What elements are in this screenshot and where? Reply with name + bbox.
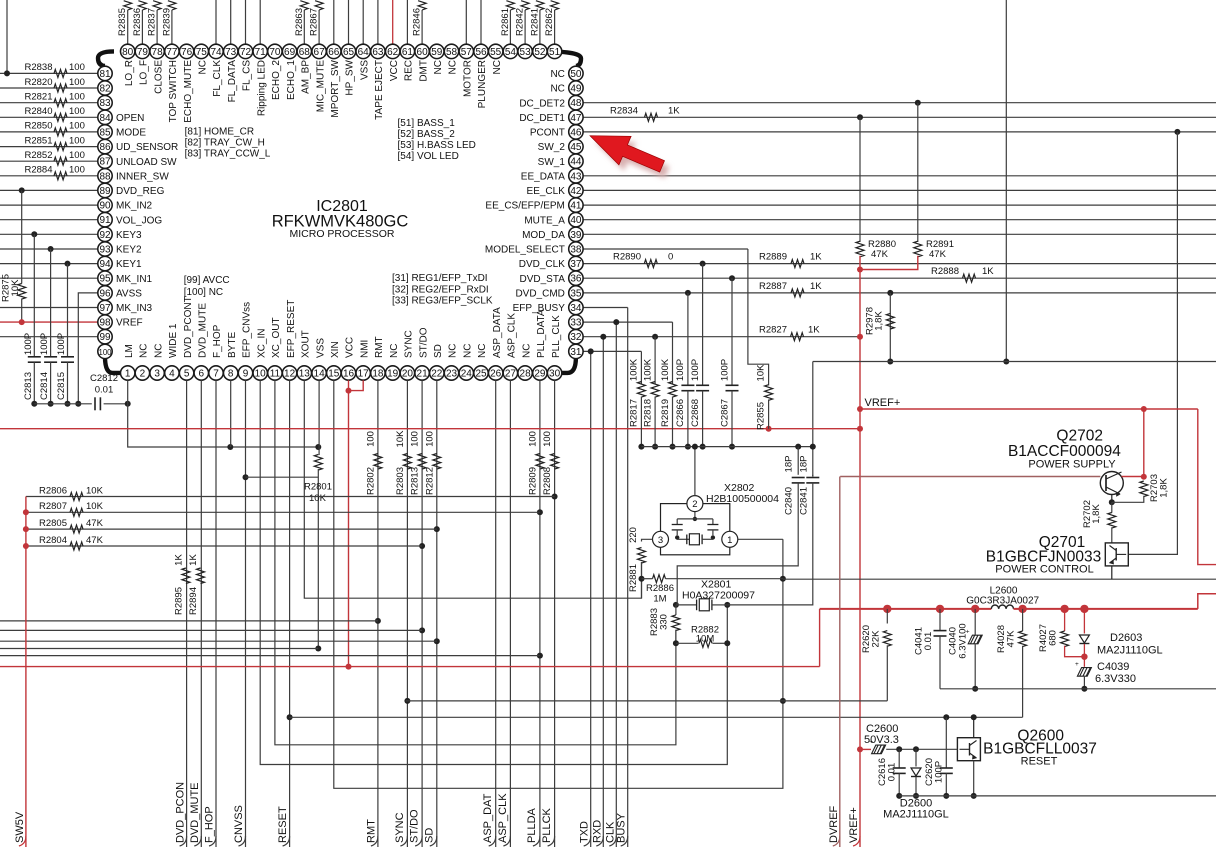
svg-text:ASP_CLK: ASP_CLK	[507, 313, 518, 358]
svg-text:18: 18	[372, 369, 384, 380]
svg-text:[52] BASS_2: [52] BASS_2	[398, 129, 456, 140]
svg-text:BYTE: BYTE	[227, 332, 238, 358]
svg-text:ASP_DAT: ASP_DAT	[482, 793, 494, 843]
svg-text:R2890: R2890	[613, 252, 641, 263]
svg-text:KEY1: KEY1	[116, 259, 142, 270]
svg-text:[99] AVCC: [99] AVCC	[184, 275, 230, 286]
svg-text:100: 100	[410, 431, 421, 447]
svg-text:78: 78	[152, 47, 164, 58]
svg-text:50V3.3: 50V3.3	[864, 734, 899, 746]
svg-text:MODE: MODE	[116, 128, 146, 139]
svg-text:100P: 100P	[39, 333, 50, 355]
svg-text:100P: 100P	[934, 761, 945, 783]
svg-text:1K: 1K	[808, 325, 820, 336]
svg-text:MA2J1110GL: MA2J1110GL	[1097, 645, 1163, 657]
svg-text:DVD_CMD: DVD_CMD	[515, 289, 564, 300]
svg-text:DMT: DMT	[418, 60, 429, 82]
svg-text:R2818: R2818	[642, 399, 653, 427]
svg-text:60: 60	[417, 47, 429, 58]
svg-text:24: 24	[461, 369, 473, 380]
svg-text:86: 86	[99, 142, 111, 153]
svg-text:SW5V: SW5V	[14, 811, 26, 843]
svg-text:72: 72	[240, 47, 252, 58]
svg-text:VREF+: VREF+	[848, 807, 860, 843]
svg-text:2: 2	[692, 499, 697, 510]
svg-text:TXD: TXD	[579, 821, 591, 843]
svg-text:100P: 100P	[690, 359, 701, 381]
svg-text:71: 71	[255, 47, 267, 58]
svg-text:[100] NC: [100] NC	[184, 287, 223, 298]
svg-text:35: 35	[570, 288, 582, 299]
svg-text:70: 70	[269, 47, 281, 58]
svg-text:DVD_PCON: DVD_PCON	[174, 782, 186, 843]
svg-text:13: 13	[299, 369, 311, 380]
svg-text:1K: 1K	[188, 554, 199, 566]
svg-text:76: 76	[181, 47, 193, 58]
svg-text:[81] HOME_CR: [81] HOME_CR	[185, 127, 254, 138]
svg-text:10K: 10K	[309, 493, 327, 504]
svg-text:51: 51	[549, 47, 561, 58]
svg-text:R2881: R2881	[628, 564, 639, 592]
svg-text:20: 20	[402, 369, 414, 380]
svg-text:XOUT: XOUT	[301, 330, 312, 358]
svg-text:92: 92	[99, 230, 111, 241]
svg-text:67: 67	[314, 47, 326, 58]
svg-text:R2851: R2851	[25, 135, 53, 146]
svg-text:POWER SUPPLY: POWER SUPPLY	[1028, 459, 1116, 471]
svg-text:C2866: C2866	[675, 399, 686, 427]
svg-text:R2884: R2884	[25, 165, 53, 176]
svg-text:DVD_MUTE: DVD_MUTE	[198, 303, 209, 358]
svg-text:DVD_REG: DVD_REG	[116, 186, 165, 197]
svg-text:94: 94	[99, 259, 111, 270]
svg-text:22: 22	[431, 369, 443, 380]
svg-text:10K: 10K	[86, 485, 104, 496]
svg-text:PLLDA: PLLDA	[526, 807, 538, 843]
svg-text:ECHO_MUTE: ECHO_MUTE	[183, 60, 194, 123]
svg-text:NC: NC	[448, 60, 459, 74]
svg-text:[51] BASS_1: [51] BASS_1	[398, 118, 456, 129]
svg-text:80: 80	[122, 47, 134, 58]
svg-text:32: 32	[570, 332, 582, 343]
svg-text:100P: 100P	[56, 333, 67, 355]
svg-text:NC: NC	[492, 60, 503, 74]
svg-text:30: 30	[549, 369, 561, 380]
svg-text:MA2J1110GL: MA2J1110GL	[883, 809, 949, 821]
svg-text:R2813: R2813	[410, 467, 421, 495]
svg-text:MUTE_A: MUTE_A	[524, 215, 565, 226]
svg-text:7: 7	[213, 369, 219, 380]
svg-text:R2889: R2889	[759, 252, 787, 263]
svg-text:R2808: R2808	[542, 467, 553, 495]
svg-text:0.01: 0.01	[95, 385, 114, 396]
svg-text:[32] REG2/EFP_RxDI: [32] REG2/EFP_RxDI	[392, 284, 489, 295]
svg-text:VSS: VSS	[359, 60, 370, 80]
svg-text:DVD_PCONT: DVD_PCONT	[183, 296, 194, 358]
svg-text:47K: 47K	[929, 249, 947, 260]
svg-text:R2888: R2888	[931, 266, 959, 277]
svg-text:R2807: R2807	[39, 501, 67, 512]
svg-text:MK_IN2: MK_IN2	[116, 201, 153, 212]
svg-text:100K: 100K	[642, 358, 653, 381]
svg-text:EE_CLK: EE_CLK	[527, 186, 566, 197]
svg-text:36: 36	[570, 274, 582, 285]
svg-text:75: 75	[196, 47, 208, 58]
svg-text:G0C3R3JA0027: G0C3R3JA0027	[966, 596, 1039, 607]
svg-text:NC: NC	[139, 344, 150, 358]
svg-text:R2805: R2805	[39, 518, 67, 529]
svg-text:1,8K: 1,8K	[1159, 478, 1170, 498]
svg-text:52: 52	[534, 47, 546, 58]
svg-text:ECHO_2: ECHO_2	[271, 60, 282, 100]
svg-text:C2840: C2840	[784, 487, 795, 515]
svg-text:EE_CS/EFP/EPM: EE_CS/EFP/EPM	[485, 201, 564, 212]
svg-text:44: 44	[570, 157, 582, 168]
svg-text:100P: 100P	[719, 359, 730, 381]
svg-text:100: 100	[69, 92, 85, 103]
svg-text:93: 93	[99, 245, 111, 256]
svg-text:AVSS: AVSS	[116, 289, 142, 300]
svg-text:79: 79	[137, 47, 149, 58]
svg-text:0.01: 0.01	[923, 632, 934, 651]
svg-text:DVD_STA: DVD_STA	[520, 274, 566, 285]
svg-text:LO_R: LO_R	[124, 60, 135, 86]
svg-text:330: 330	[659, 614, 670, 630]
svg-text:100: 100	[69, 150, 85, 161]
svg-text:RESET: RESET	[1021, 756, 1058, 768]
svg-text:1K: 1K	[810, 252, 822, 263]
svg-text:LM: LM	[124, 344, 135, 358]
svg-text:40: 40	[570, 215, 582, 226]
svg-text:65: 65	[343, 47, 355, 58]
svg-text:MIC_MUTE: MIC_MUTE	[315, 60, 326, 113]
svg-text:NC: NC	[153, 344, 164, 358]
svg-text:1K: 1K	[173, 554, 184, 566]
svg-text:B1ACCF000094: B1ACCF000094	[1008, 443, 1121, 460]
svg-text:R2894: R2894	[188, 587, 199, 615]
svg-text:10K: 10K	[86, 501, 104, 512]
svg-text:19: 19	[387, 369, 399, 380]
svg-text:+: +	[1075, 661, 1079, 668]
svg-text:C2814: C2814	[39, 372, 50, 400]
svg-text:SW_2: SW_2	[538, 142, 566, 153]
svg-text:73: 73	[225, 47, 237, 58]
svg-text:EFP_RESET: EFP_RESET	[286, 300, 297, 358]
svg-text:R2895: R2895	[173, 587, 184, 615]
svg-text:VREF+: VREF+	[865, 397, 901, 409]
svg-text:28: 28	[520, 369, 532, 380]
svg-text:MOD_DA: MOD_DA	[522, 230, 565, 241]
svg-text:18P: 18P	[799, 456, 810, 473]
svg-text:R2841: R2841	[529, 8, 540, 36]
svg-text:SW_1: SW_1	[538, 157, 566, 168]
svg-text:10: 10	[255, 369, 267, 380]
svg-text:VCC: VCC	[389, 60, 400, 81]
svg-text:R2817: R2817	[629, 399, 640, 427]
svg-text:RMT: RMT	[365, 819, 377, 843]
svg-text:10K: 10K	[10, 279, 21, 297]
svg-text:9: 9	[243, 369, 249, 380]
svg-text:MOTOR: MOTOR	[463, 60, 474, 97]
svg-text:UD_SENSOR: UD_SENSOR	[116, 142, 178, 153]
svg-text:[53] H.BASS LED: [53] H.BASS LED	[398, 140, 476, 151]
svg-text:R2855: R2855	[756, 402, 767, 430]
svg-text:17: 17	[358, 369, 370, 380]
svg-text:VSS: VSS	[315, 338, 326, 358]
svg-text:R2846: R2846	[412, 8, 423, 36]
svg-text:R2801: R2801	[304, 482, 332, 493]
svg-text:PLL_CLK: PLL_CLK	[551, 315, 562, 358]
svg-text:56: 56	[475, 47, 487, 58]
svg-text:100K: 100K	[660, 358, 671, 381]
svg-text:R2804: R2804	[39, 535, 67, 546]
svg-text:R2861: R2861	[500, 8, 511, 36]
svg-text:MODEL_SELECT: MODEL_SELECT	[485, 245, 565, 256]
svg-text:89: 89	[99, 186, 111, 197]
svg-text:R2802: R2802	[365, 467, 376, 495]
svg-text:VCC: VCC	[345, 337, 356, 358]
svg-text:87: 87	[99, 157, 111, 168]
svg-text:6.3V100: 6.3V100	[958, 623, 969, 658]
svg-text:ST/DO: ST/DO	[418, 327, 429, 358]
svg-text:R2809: R2809	[527, 467, 538, 495]
svg-text:R2850: R2850	[25, 121, 53, 132]
svg-text:47K: 47K	[871, 249, 889, 260]
svg-text:R2852: R2852	[25, 150, 53, 161]
svg-text:45: 45	[570, 142, 582, 153]
svg-text:MPORT_SW: MPORT_SW	[330, 59, 341, 117]
svg-text:F_HOP: F_HOP	[204, 806, 216, 843]
svg-text:64: 64	[358, 47, 370, 58]
svg-text:1: 1	[727, 535, 732, 546]
svg-text:KEY3: KEY3	[116, 230, 142, 241]
svg-text:88: 88	[99, 171, 111, 182]
svg-text:90: 90	[99, 201, 111, 212]
svg-text:47K: 47K	[1006, 630, 1017, 648]
svg-text:R2862: R2862	[544, 8, 555, 36]
svg-text:1K: 1K	[810, 281, 822, 292]
svg-text:NC: NC	[550, 84, 564, 95]
svg-text:C2813: C2813	[23, 372, 34, 400]
svg-text:XIN: XIN	[330, 341, 341, 358]
svg-text:VOL_JOG: VOL_JOG	[116, 215, 162, 226]
svg-text:R2812: R2812	[424, 467, 435, 495]
svg-text:74: 74	[210, 47, 222, 58]
svg-text:R2836: R2836	[132, 8, 143, 36]
svg-text:14: 14	[314, 369, 326, 380]
svg-text:31: 31	[570, 347, 582, 358]
svg-text:F_HOP: F_HOP	[212, 324, 223, 358]
svg-text:KEY2: KEY2	[116, 245, 142, 256]
svg-text:C2815: C2815	[56, 372, 67, 400]
svg-text:AM_BP: AM_BP	[301, 60, 312, 94]
svg-text:53: 53	[520, 47, 532, 58]
svg-text:R2821: R2821	[25, 92, 53, 103]
svg-text:69: 69	[284, 47, 296, 58]
svg-text:39: 39	[570, 230, 582, 241]
svg-text:100: 100	[69, 135, 85, 146]
svg-text:57: 57	[461, 47, 473, 58]
svg-text:MK_IN1: MK_IN1	[116, 274, 153, 285]
svg-text:63: 63	[372, 47, 384, 58]
svg-text:RMT: RMT	[374, 336, 385, 358]
svg-text:18P: 18P	[784, 456, 795, 473]
svg-text:6: 6	[199, 369, 205, 380]
svg-text:R2867: R2867	[309, 8, 320, 36]
svg-text:[83] TRAY_CCW_L: [83] TRAY_CCW_L	[185, 149, 271, 160]
svg-text:23: 23	[446, 369, 458, 380]
svg-text:29: 29	[534, 369, 546, 380]
svg-text:PCONT: PCONT	[530, 128, 565, 139]
svg-text:0.01: 0.01	[887, 763, 898, 782]
svg-text:R2819: R2819	[660, 399, 671, 427]
svg-text:62: 62	[387, 47, 399, 58]
svg-text:2: 2	[140, 369, 146, 380]
svg-text:NC: NC	[198, 60, 209, 74]
svg-text:TAPE EJECT: TAPE EJECT	[374, 60, 385, 120]
svg-text:10K: 10K	[395, 430, 406, 448]
svg-text:ASP_CLK: ASP_CLK	[497, 793, 509, 843]
svg-text:R2839: R2839	[161, 8, 172, 36]
svg-text:47K: 47K	[86, 535, 104, 546]
svg-text:FL_CS: FL_CS	[242, 60, 253, 91]
svg-text:98: 98	[99, 318, 111, 329]
svg-text:100P: 100P	[675, 359, 686, 381]
svg-text:C4039: C4039	[1097, 661, 1129, 673]
svg-text:MICRO PROCESSOR: MICRO PROCESSOR	[289, 228, 394, 240]
svg-text:NC: NC	[433, 60, 444, 74]
svg-text:NC: NC	[550, 69, 564, 80]
svg-text:NC: NC	[463, 344, 474, 358]
svg-text:100: 100	[69, 77, 85, 88]
svg-text:66: 66	[328, 47, 340, 58]
svg-text:5: 5	[184, 369, 190, 380]
svg-text:TOP SWITCH: TOP SWITCH	[168, 60, 179, 122]
svg-text:R2806: R2806	[39, 485, 67, 496]
svg-text:77: 77	[166, 47, 178, 58]
svg-text:VREF: VREF	[116, 318, 143, 329]
svg-text:DC_DET1: DC_DET1	[519, 113, 565, 124]
svg-text:85: 85	[99, 127, 111, 138]
svg-text:34: 34	[570, 303, 582, 314]
svg-text:100: 100	[69, 62, 85, 73]
svg-text:50: 50	[570, 69, 582, 80]
svg-text:100: 100	[424, 431, 435, 447]
svg-text:H0A327200097: H0A327200097	[682, 589, 755, 601]
svg-text:PLUNGER: PLUNGER	[477, 60, 488, 108]
svg-text:R2842: R2842	[515, 8, 526, 36]
svg-text:CLOSE: CLOSE	[153, 60, 164, 94]
svg-text:8: 8	[228, 369, 234, 380]
svg-text:680: 680	[1048, 630, 1059, 646]
svg-text:OPEN: OPEN	[116, 113, 144, 124]
svg-text:1: 1	[125, 369, 131, 380]
svg-text:XC_OUT: XC_OUT	[271, 317, 282, 358]
svg-text:INNER_SW: INNER_SW	[116, 171, 169, 182]
svg-text:SD: SD	[423, 828, 435, 843]
svg-text:58: 58	[446, 47, 458, 58]
svg-text:CLK: CLK	[604, 821, 616, 843]
svg-text:3: 3	[154, 369, 160, 380]
svg-text:11: 11	[270, 369, 281, 380]
svg-text:EFP_CNVss: EFP_CNVss	[242, 302, 253, 358]
svg-text:43: 43	[570, 171, 582, 182]
svg-text:FL_CLK: FL_CLK	[212, 60, 223, 97]
svg-text:1,8K: 1,8K	[874, 311, 885, 331]
svg-text:SD: SD	[433, 344, 444, 358]
svg-text:1K: 1K	[982, 266, 994, 277]
svg-text:4: 4	[169, 369, 175, 380]
svg-text:1M: 1M	[653, 594, 666, 605]
svg-text:83: 83	[99, 98, 111, 109]
svg-text:SYNC: SYNC	[394, 812, 406, 843]
svg-text:100: 100	[69, 165, 85, 176]
svg-text:MK_IN3: MK_IN3	[116, 303, 153, 314]
svg-text:R2886: R2886	[646, 583, 674, 594]
svg-text:R2803: R2803	[395, 467, 406, 495]
svg-text:FL_DATA: FL_DATA	[227, 60, 238, 103]
svg-text:68: 68	[299, 47, 311, 58]
svg-text:82: 82	[99, 84, 111, 95]
svg-text:6.3V330: 6.3V330	[1095, 673, 1136, 685]
svg-text:1,8K: 1,8K	[1091, 504, 1102, 524]
svg-text:XC_IN: XC_IN	[256, 329, 267, 358]
svg-text:100: 100	[98, 348, 112, 357]
svg-text:99: 99	[99, 332, 111, 343]
svg-text:NC: NC	[521, 344, 532, 358]
svg-text:41: 41	[570, 201, 582, 212]
svg-text:100: 100	[542, 431, 553, 447]
svg-text:47K: 47K	[86, 518, 104, 529]
svg-text:81: 81	[99, 69, 111, 80]
svg-text:ST/DO: ST/DO	[409, 809, 421, 843]
svg-text:R2820: R2820	[25, 77, 53, 88]
svg-text:C2868: C2868	[690, 399, 701, 427]
svg-text:[54] VOL LED: [54] VOL LED	[398, 151, 459, 162]
svg-text:LO_F: LO_F	[139, 60, 150, 85]
svg-text:37: 37	[570, 259, 582, 270]
svg-text:DC_DET2: DC_DET2	[519, 98, 565, 109]
svg-text:96: 96	[99, 288, 111, 299]
svg-text:DVREF: DVREF	[828, 805, 840, 843]
svg-text:95: 95	[99, 274, 111, 285]
svg-text:R2840: R2840	[25, 106, 53, 117]
svg-text:25: 25	[475, 369, 487, 380]
svg-text:49: 49	[570, 84, 582, 95]
svg-text:100: 100	[527, 431, 538, 447]
svg-text:BUSY: BUSY	[616, 812, 628, 843]
svg-text:Ripping LED: Ripping LED	[256, 60, 267, 116]
svg-text:26: 26	[490, 369, 502, 380]
svg-text:POWER CONTROL: POWER CONTROL	[995, 564, 1093, 576]
svg-text:CNVSS: CNVSS	[233, 805, 245, 843]
svg-text:SYNC: SYNC	[404, 330, 415, 358]
svg-text:61: 61	[402, 47, 414, 58]
svg-text:EE_DATA: EE_DATA	[521, 171, 565, 182]
svg-text:10K: 10K	[756, 364, 767, 382]
svg-text:R2863: R2863	[294, 8, 305, 36]
svg-text:R2887: R2887	[759, 281, 787, 292]
svg-text:55: 55	[490, 47, 502, 58]
svg-text:H2B100500004: H2B100500004	[706, 493, 779, 505]
svg-text:RXD: RXD	[592, 820, 604, 843]
svg-text:PLL_DATA: PLL_DATA	[536, 309, 547, 358]
svg-text:42: 42	[570, 186, 582, 197]
svg-text:ASP_DATA: ASP_DATA	[492, 307, 503, 358]
svg-text:Q2702: Q2702	[1056, 428, 1103, 445]
svg-text:1K: 1K	[668, 105, 680, 116]
svg-text:NC: NC	[448, 344, 459, 358]
